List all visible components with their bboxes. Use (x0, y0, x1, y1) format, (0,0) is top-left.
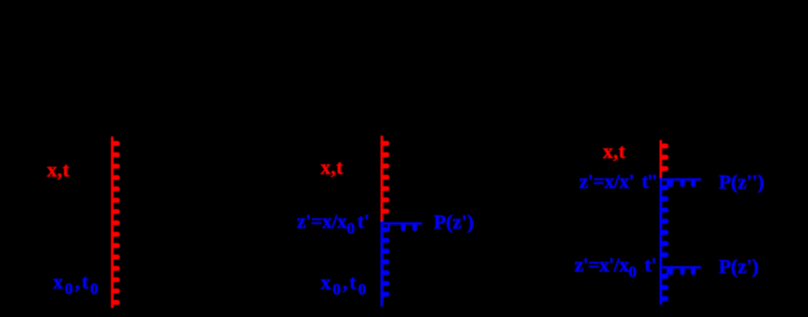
svg-text:z'=x'/x0: z'=x'/x0 (575, 255, 637, 282)
gluon line: emitted gluon 2, diagram 3 (blue horizontal coil) (662, 267, 701, 275)
gluon line: emitted gluon 1, diagram 3 (blue horizontal coil) (662, 179, 701, 187)
svg-text:P(z''): P(z'') (719, 172, 765, 194)
svg-text:t': t' (357, 211, 369, 233)
svg-text:x0,t0: x0,t0 (321, 272, 368, 299)
gluon line: evolved parton x,t diagram 2 (red coil top) (381, 136, 390, 221)
svg-text:z'=x/x': z'=x/x' (579, 171, 634, 193)
svg-text:t': t' (645, 255, 657, 277)
gluon line: intermediate+initial parton diagram 3 (blue coil) (660, 178, 669, 305)
svg-text:t'': t'' (642, 171, 657, 193)
gluon line: initial parton x0,t0 diagram 2 (blue coil bottom) (381, 221, 390, 307)
svg-text:x,t: x,t (321, 157, 344, 179)
svg-text:x,t: x,t (603, 141, 626, 163)
gluon line: incoming parton, diagram 1 (red coil) (111, 137, 120, 309)
svg-text:P(z'): P(z') (434, 212, 474, 234)
gluon line: evolved parton x,t diagram 3 (red coil top) (660, 140, 669, 178)
svg-text:x0,t0: x0,t0 (53, 272, 100, 299)
svg-text:z'=x/x0: z'=x/x0 (297, 211, 355, 238)
gluon line: emitted gluon, diagram 2 (blue horizontal coil) (383, 223, 422, 231)
svg-text:P(z'): P(z') (719, 256, 759, 278)
svg-text:x,t: x,t (47, 160, 70, 182)
